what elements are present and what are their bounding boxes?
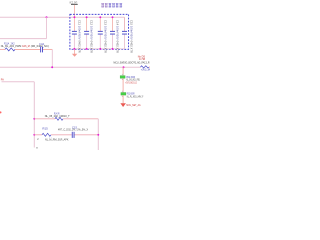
node junction on top bus at x46.5 [46,16,48,18]
svg-text:C12 100nF/50V 0402 X7R: C12 100nF/50V 0402 X7R [90,20,94,53]
wire R/C row right [43,48,52,50]
wire right chain seg2 [122,78,124,92]
svg-text:0.7M: 0.7M [139,57,145,61]
wire row1 right [63,118,98,120]
resistor R14 zigzag [55,117,63,120]
wire row1 left [34,118,55,120]
power arrow down [120,103,126,107]
capacitor C1 column [72,16,82,53]
wire2 horizontal [2,81,35,83]
wire bottom bus of box [73,48,125,50]
pin marks FB1 [122,73,124,76]
resistor R15 zigzag [42,133,51,136]
node junction stem row2 [33,134,35,136]
wire tail after resistor [149,66,150,68]
capacitor C3 column [98,16,108,53]
wire R/C row middle [15,48,40,50]
svg-text:NL_PL_MCU_HRV_F: NL_PL_MCU_HRV_F [127,95,144,98]
capacitor C5 column [122,17,134,53]
svg-text:C15 100nF/50V 0402 X7R: C15 100nF/50V 0402 X7R [130,20,134,53]
wire row2 right [75,134,99,136]
node junction line A x123.5 [123,66,125,68]
svg-text:4R7_C_D02_1%_-2%_5%_X: 4R7_C_D02_1%_-2%_5%_X [58,128,88,131]
svg-text:C11A: C11A [39,42,44,46]
svg-text:+3V3_MCU_D: +3V3_MCU_D [125,80,137,84]
svg-text:FA: FA [1,79,4,82]
tiny red speck at left edge [0,111,2,113]
wire line B horizontal [0,38,47,40]
wire corner down to line A [51,49,53,67]
svg-text:C14 100nF/50V 0402 X7R: C14 100nF/50V 0402 X7R [116,20,120,53]
svg-text:NL_M_RM_01R_APK: NL_M_RM_01R_APK [45,137,69,141]
power port VCC_3V3 bar [71,4,78,5]
connector group dashed box [70,14,129,49]
wire VCC stem [73,5,75,17]
wire row2 mid [51,134,72,136]
wire corner down at x98.3 [97,119,99,150]
capacitor C4 column [110,16,120,53]
ground arrow below box [72,49,77,57]
ferrite bead FB1 [120,76,125,79]
wire right chain seg1 [122,67,124,75]
resistor R0 zigzag at right end of line A [141,66,150,68]
node junction line A x52 [51,66,53,68]
svg-text:NL_BL_ADJ_PWM: NL_BL_ADJ_PWM [1,44,22,48]
node junction x98.3 row2 [97,134,99,136]
node junction stem row1 [33,118,35,120]
capacitor C11 plates [39,47,42,53]
svg-text:NL_05_202_13R10_T: NL_05_202_13R10_T [45,114,70,118]
wire stem vertical [33,82,35,148]
svg-text:MCU_SWDIO_BOOT0_AD_PA13_R: MCU_SWDIO_BOOT0_AD_PA13_R [114,60,150,64]
pin marks FB2 [122,90,124,93]
capacitor C15 plates [71,132,74,138]
capacitor C2 column [84,16,94,53]
wire vertical from top bus to line B [46,17,48,38]
wire net VCC top bus [0,16,125,18]
svg-text:MCU_NET_AG: MCU_NET_AG [126,103,140,107]
svg-text:FA6_M: FA6_M [22,44,30,48]
svg-text:+3V3_MCU: +3V3_MCU [141,69,150,72]
resistor R1 zigzag [5,48,15,51]
wire line A long horizontal [0,66,141,68]
title text 靠近背光接口 [101,3,122,7]
wire row2 left [34,134,42,136]
svg-text:R15: R15 [42,126,48,130]
svg-text:C11 100nF/50V 0402 X7R: C11 100nF/50V 0402 X7R [77,20,81,53]
svg-text:C13 100nF/50V 0402 X7R: C13 100nF/50V 0402 X7R [103,20,107,53]
wire R/C row left [0,48,5,50]
wire right chain seg3 [122,95,124,103]
ferrite bead FB2 [121,93,126,96]
